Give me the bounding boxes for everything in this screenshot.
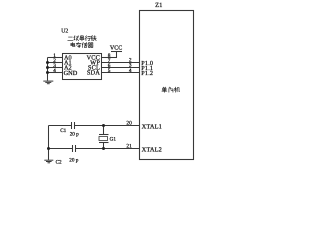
svg-text:XTAL2: XTAL2 <box>142 147 162 154</box>
Z1 pin name XTAL2 <box>142 147 162 154</box>
svg-text:5: 5 <box>108 68 111 74</box>
junction dot crystal/XTAL1 net <box>102 124 105 127</box>
junction dot rail/XTAL2 net <box>47 147 50 150</box>
ground at oscillator <box>44 160 53 163</box>
Z1 pin name P1.0 <box>141 60 153 67</box>
C1 value 20 p <box>70 132 79 138</box>
wire address-pin ground rail <box>47 58 49 81</box>
Z1 pin name P1.2 <box>141 70 153 77</box>
U2 pin name SDA <box>87 70 100 77</box>
U2 pin number 8 <box>108 53 111 59</box>
svg-text:G1: G1 <box>110 136 117 142</box>
U2 pin name VCC <box>86 55 100 62</box>
G1 reference label <box>110 136 117 142</box>
ground under U2 <box>43 81 53 84</box>
capacitor C2 <box>73 145 76 152</box>
U2 pin number 5 <box>108 68 111 74</box>
crystal G1 <box>99 126 109 149</box>
VCC net label <box>110 45 122 51</box>
wire XTAL2 net left segment <box>49 148 73 150</box>
wire U2 SCL to Z1 P1.1 <box>102 67 140 69</box>
svg-text:Z1: Z1 <box>155 2 162 9</box>
svg-text:GND: GND <box>64 70 78 77</box>
svg-text:20 p: 20 p <box>69 158 78 164</box>
wire oscillator ground rail <box>48 126 50 160</box>
svg-text:20 p: 20 p <box>70 132 79 138</box>
svg-text:U2: U2 <box>61 29 68 35</box>
junction dot rail/pin2 <box>46 61 49 64</box>
wire U2 pin 4 stub <box>48 72 63 74</box>
svg-text:4: 4 <box>53 68 56 74</box>
Z1 description (单片机) <box>162 87 180 92</box>
C1 reference label <box>60 128 66 134</box>
junction dot crystal/XTAL2 net <box>102 147 105 150</box>
Z1 pin name XTAL1 <box>142 124 162 131</box>
Z1 pin number 2 <box>129 58 132 64</box>
wire U2 pin 1 stub <box>48 57 63 59</box>
U2 reference label <box>61 29 68 35</box>
svg-text:SDA: SDA <box>87 70 100 77</box>
U2 pin name SCL <box>88 65 100 72</box>
U2 pin number 3 <box>53 63 56 69</box>
C2 value 20 p <box>69 158 78 164</box>
junction dot rail/pin4 <box>46 71 49 74</box>
U2 pin number 2 <box>53 58 56 64</box>
svg-text:4: 4 <box>129 68 132 74</box>
Z1 pin number 20 <box>126 121 132 127</box>
Z1 pin number 21 <box>126 144 132 150</box>
U2 pin number 4 <box>53 68 56 74</box>
U2 pin name A1 <box>64 60 72 67</box>
U2 pin name A0 <box>64 55 72 62</box>
U2 pin number 1 <box>53 53 56 59</box>
wire XTAL1 net left segment <box>49 125 72 127</box>
Z1 pin number 4 <box>129 68 132 74</box>
wire XTAL2 net right segment <box>76 148 140 150</box>
svg-text:VCC: VCC <box>110 45 122 51</box>
Z1 reference label <box>155 2 162 9</box>
U2 pin name GND <box>64 70 78 77</box>
wire U2 pin 8 to VCC <box>102 57 118 59</box>
wire U2 pin 3 stub <box>48 67 63 69</box>
junction dot rail/pin3 <box>46 66 49 69</box>
wire U2 SDA to Z1 P1.2 <box>102 72 140 74</box>
svg-text:C2: C2 <box>56 159 62 165</box>
U2 pin name WP <box>90 60 100 67</box>
capacitor C1 <box>72 122 75 129</box>
wire U2 pin 2 stub <box>48 62 63 64</box>
U2 description line 1 (二线串行铁) <box>68 35 97 40</box>
C2 reference label <box>56 159 62 165</box>
VCC power symbol <box>111 52 122 58</box>
Z1 pin number 3 <box>129 63 132 69</box>
wire XTAL1 net right segment <box>75 125 140 127</box>
U2 description line 2 (电存储器) <box>71 42 93 47</box>
Z1 pin name P1.1 <box>141 65 153 72</box>
svg-text:C1: C1 <box>60 128 66 134</box>
MCU Z1 body <box>140 11 194 160</box>
U2 pin name A2 <box>64 65 72 72</box>
U2 pin number 6 <box>108 63 111 69</box>
IC U2 body <box>63 54 102 80</box>
wire U2 WP to Z1 P1.0 <box>102 62 140 64</box>
svg-text:P1.2: P1.2 <box>141 70 153 77</box>
U2 pin number 7 <box>108 58 111 64</box>
svg-text:XTAL1: XTAL1 <box>142 124 162 131</box>
